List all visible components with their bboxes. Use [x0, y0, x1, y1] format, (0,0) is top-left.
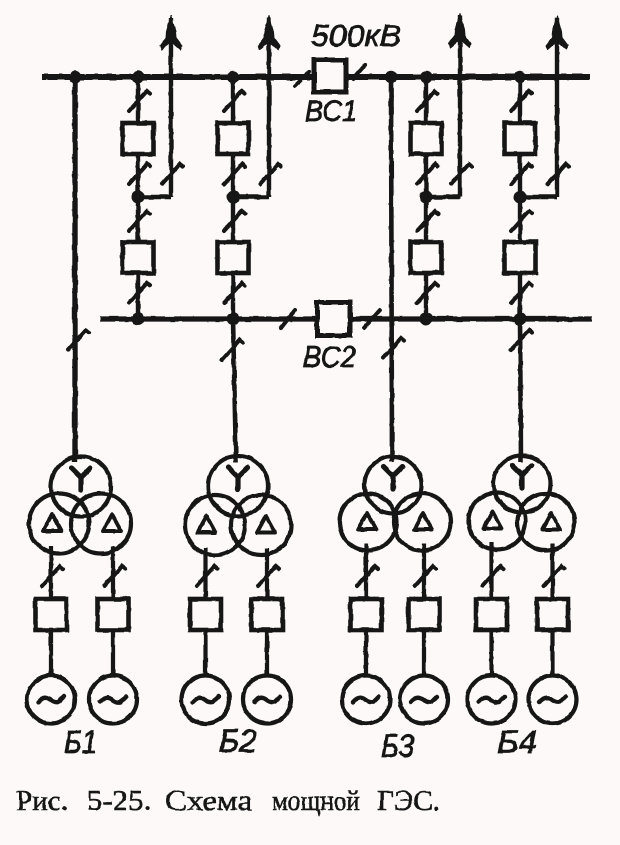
generator breaker square block 4 left	[476, 599, 507, 630]
busbar W1 500 kV, right section	[344, 74, 590, 80]
wire: breaker to generator G4	[265, 630, 269, 677]
wire: T2 right LV lead to generator breaker	[265, 548, 269, 599]
transformer T1 winding symbol delta right	[103, 515, 121, 532]
breaker square bay 3 upper	[411, 123, 442, 154]
wire: breaker to generator G2	[111, 630, 115, 677]
wire: breaker to generator G6	[422, 630, 426, 677]
generator G8	[529, 676, 577, 724]
wire: transformer T2 riser from busbar W2	[233, 319, 236, 462]
node: bay 1 line tap junction	[132, 191, 145, 204]
transformer T3 winding symbol Y	[384, 467, 403, 490]
transformer T3 LV circle right	[394, 494, 451, 551]
disconnector slash on T2 left lead	[197, 566, 218, 586]
disconnector slash bay 3 upper	[417, 91, 438, 111]
disconnector slash on T2 right lead	[258, 566, 279, 586]
arrowhead of outgoing line W2	[258, 16, 280, 50]
svg-text:Б4: Б4	[497, 724, 537, 760]
svg-text:ВС2: ВС2	[303, 341, 356, 374]
transformer T2 LV circle right	[231, 495, 291, 555]
svg-text:ВС1: ВС1	[305, 95, 357, 128]
wire: outgoing 500kV line W4	[555, 18, 559, 198]
breaker square bay 4 upper	[505, 123, 536, 154]
node: bay 2 line tap junction	[227, 191, 240, 204]
transformer T4 LV circle right	[518, 494, 575, 551]
wire: transformer T1 riser from busbar W1	[72, 77, 77, 462]
disconnector slash right of BC2	[364, 310, 380, 328]
junction on busbar W2 at bay 3	[420, 313, 433, 326]
transformer T2 LV circle left	[185, 495, 245, 555]
disconnector slash bay 3 below upper breaker	[417, 164, 438, 184]
disconnector slash on T4 riser	[511, 330, 532, 350]
bus coupler breaker BC2 (ВС2)	[317, 303, 350, 336]
wire: breaker to generator G5	[364, 630, 368, 677]
disconnector slash on outgoing line W1	[162, 164, 183, 184]
disconnector slash bay 3 below tap	[417, 211, 438, 231]
wire: bay 1 tap to outgoing line	[138, 195, 171, 199]
wire: bay 3 tap to outgoing line	[426, 195, 460, 199]
label ВС2	[303, 341, 356, 374]
transformer T1 LV circle left	[29, 494, 89, 554]
wire: T3 right LV lead to generator breaker	[422, 544, 426, 600]
label Б2 block 2	[219, 723, 257, 759]
wire: bay 3 breaker chain from busbar W1 to busbar W2	[424, 77, 428, 319]
wire: T1 left LV lead to generator breaker	[49, 547, 53, 600]
junction on busbar W2 at bay 1	[132, 313, 145, 326]
disconnector slash on T3 riser	[383, 338, 404, 358]
generator breaker square block 3 left	[351, 599, 382, 630]
busbar W2, left section	[100, 316, 319, 321]
transformer T1 LV circle right	[71, 494, 131, 554]
disconnector slash bay 1 below upper breaker	[129, 164, 150, 184]
transformer T4 three-winding: HV circle	[494, 456, 551, 513]
wire: transformer T3 riser from busbar W1 (crosses W2)	[391, 77, 392, 462]
disconnector slash on T4 left lead	[483, 566, 504, 586]
disconnector slash bay 2 below upper breaker	[224, 164, 245, 184]
transformer T4 winding symbol delta right	[543, 513, 561, 530]
disconnector slash on T1 riser	[68, 330, 89, 350]
wire: breaker to generator G8	[550, 630, 554, 677]
wire: bay 4 breaker chain from busbar W1 to busbar W2	[518, 77, 522, 319]
generator breaker square block 3 right	[409, 599, 440, 630]
wire: T3 left LV lead to generator breaker	[364, 544, 368, 600]
wire: T1 right LV lead to generator breaker	[111, 547, 115, 600]
generator G1	[27, 676, 75, 724]
transformer T3 winding symbol delta left	[358, 513, 376, 530]
transformer T4 winding symbol Y	[513, 466, 532, 489]
busbar W2, right section	[348, 316, 592, 321]
junction of T3 riser on busbar W1	[385, 71, 397, 83]
generator G2	[89, 676, 137, 724]
label Б4 block 4	[497, 724, 537, 760]
wire: breaker to generator G3	[203, 630, 207, 677]
breaker square bay 3 lower	[411, 242, 442, 273]
svg-text:500кВ: 500кВ	[311, 18, 401, 53]
svg-text:Б2: Б2	[219, 723, 257, 759]
wire: bay 2 tap to outgoing line	[233, 195, 269, 199]
disconnector slash bay 4 below tap	[511, 211, 532, 231]
generator breaker square block 1 right	[98, 599, 129, 630]
label Б1 block 1	[64, 724, 97, 760]
disconnector slash bay 2 upper	[224, 91, 245, 111]
wire: bay 2 breaker chain from busbar W1 to busbar W2	[231, 77, 235, 319]
junction of T1 riser on busbar W1	[69, 71, 81, 83]
transformer T3 three-winding: HV circle	[365, 457, 422, 514]
wire: bay 4 tap to outgoing line	[520, 195, 557, 199]
generator G7	[468, 676, 516, 724]
junction on busbar W1 at bay 3	[420, 71, 432, 83]
disconnector slash bay 1 above busbar W2	[129, 283, 150, 303]
disconnector slash bay 4 upper	[511, 91, 532, 111]
transformer T3 LV circle left	[340, 494, 397, 551]
disconnector slash bay 3 above busbar W2	[417, 283, 438, 303]
disconnector slash bay 4 below upper breaker	[511, 164, 532, 184]
disconnector slash bay 1 upper	[129, 91, 150, 111]
generator breaker square block 1 left	[36, 599, 67, 630]
svg-text:Б3: Б3	[381, 728, 414, 764]
junction on busbar W1 at bay 2	[227, 71, 239, 83]
transformer T4 winding symbol delta left	[484, 512, 502, 529]
transformer T2 winding symbol Y	[229, 468, 248, 491]
wire: outgoing 500kV line W3	[458, 16, 462, 198]
arrowhead of outgoing line W1	[160, 16, 182, 50]
wire: transformer T4 riser from busbar W2	[520, 319, 521, 462]
caption Рис. 5-25	[16, 785, 440, 817]
disconnector slash bay 1 below tap	[129, 211, 150, 231]
transformer T1 winding symbol delta left	[43, 515, 61, 532]
node: bay 3 line tap junction	[420, 191, 433, 204]
arrowhead of outgoing line W3	[449, 14, 471, 48]
wire: breaker to generator G1	[49, 630, 53, 677]
label ВС1	[305, 95, 357, 128]
junction on busbar W2 at bay 4	[514, 313, 527, 326]
junction on busbar W2 at bay 2	[227, 313, 240, 326]
disconnector slash bay 2 above busbar W2	[224, 283, 245, 303]
breaker square bay 1 upper	[123, 123, 154, 154]
generator breaker square block 4 right	[537, 599, 568, 630]
disconnector slash on outgoing line W2	[260, 164, 281, 184]
transformer T2 winding symbol delta right	[257, 516, 275, 533]
wire: breaker to generator G7	[489, 630, 493, 677]
wire: outgoing 500kV line W2	[267, 18, 271, 198]
junction on busbar W1 at bay 4	[514, 71, 526, 83]
disconnector slash on outgoing line W3	[451, 164, 472, 184]
wire: outgoing 500kV line W1	[169, 18, 173, 198]
transformer T3 winding symbol delta right	[414, 513, 432, 530]
disconnector slash on T3 right lead	[415, 566, 436, 586]
transformer T2 three-winding: HV circle	[208, 456, 268, 516]
transformer T4 LV circle left	[469, 493, 526, 550]
arrowhead of outgoing line W4	[546, 16, 568, 50]
disconnector slash on T3 left lead	[357, 566, 378, 586]
wire: T2 left LV lead to generator breaker	[203, 548, 207, 599]
generator breaker square block 2 right	[252, 599, 283, 630]
label 500кВ	[311, 18, 401, 53]
disconnector slash on T1 left lead	[42, 566, 63, 586]
transformer T2 winding symbol delta left	[198, 516, 216, 533]
generator G6	[400, 676, 448, 724]
disconnector slash left of BC2	[281, 310, 295, 328]
breaker square bay 1 lower	[123, 242, 154, 273]
disconnector slash on outgoing line W4	[548, 164, 569, 184]
disconnector slash right of BC1	[353, 65, 365, 79]
node: bay 4 line tap junction	[514, 191, 527, 204]
breaker square bay 2 lower	[218, 242, 249, 273]
breaker square bay 4 lower	[505, 242, 536, 273]
wire: T4 left LV lead to generator breaker	[489, 543, 493, 600]
generator G4	[243, 676, 291, 724]
disconnector slash bay 2 below tap	[224, 211, 245, 231]
disconnector slash left of BC1	[295, 72, 309, 86]
wire: T4 right LV lead to generator breaker	[550, 544, 554, 600]
svg-text:Б1: Б1	[64, 724, 97, 760]
bus coupler breaker BC1 (ВС1)	[314, 60, 346, 92]
disconnector slash bay 4 above busbar W2	[511, 283, 532, 303]
generator G3	[182, 676, 230, 724]
generator G5	[342, 676, 390, 724]
breaker square bay 2 upper	[218, 123, 249, 154]
generator breaker square block 2 left	[190, 599, 221, 630]
wire: bay 1 breaker chain from busbar W1 to busbar W2	[136, 77, 140, 319]
junction on busbar W1 at bay 1	[132, 71, 144, 83]
disconnector slash on T1 right lead	[104, 566, 125, 586]
disconnector slash on T4 right lead	[544, 566, 565, 586]
transformer T1 winding symbol Y	[72, 468, 91, 491]
transformer T1 three-winding: HV circle	[51, 457, 111, 517]
label Б3 block 3	[381, 728, 414, 764]
busbar W1 500 kV, left section	[42, 74, 316, 80]
disconnector slash on T2 riser	[222, 340, 243, 360]
